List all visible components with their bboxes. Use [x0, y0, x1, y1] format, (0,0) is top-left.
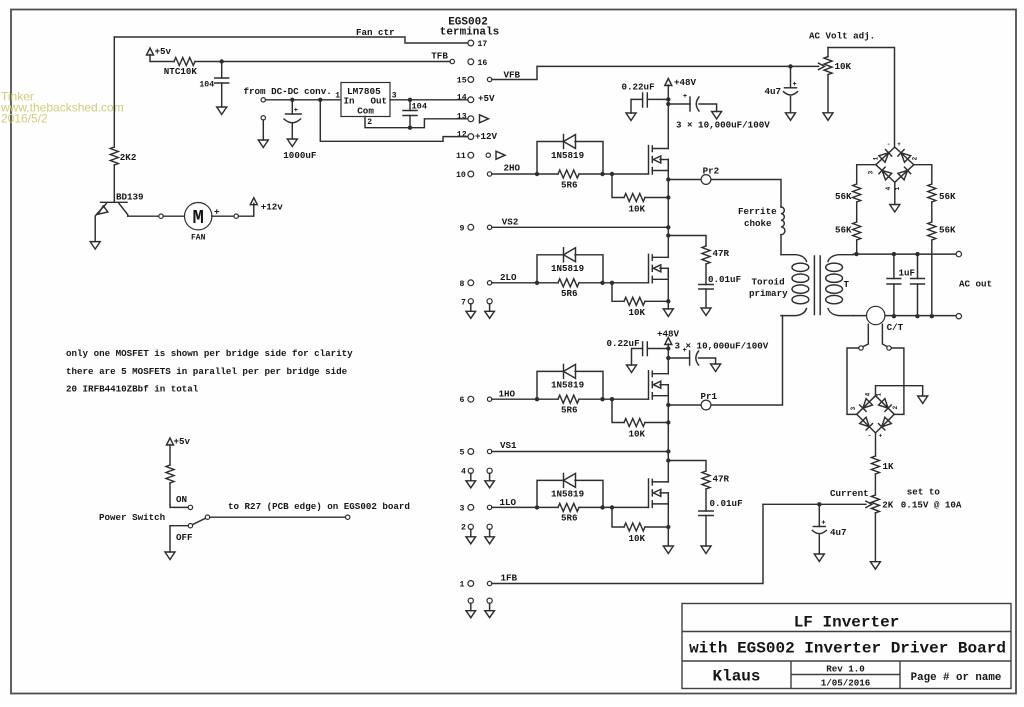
wire 47R to 0.01uF lower — [705, 489, 707, 511]
node circle Pr2 — [701, 175, 711, 185]
svg-text:M: M — [192, 207, 203, 229]
ground NTC cap — [217, 107, 227, 115]
wire rail 2HO source down — [667, 160, 669, 258]
svg-text:2LO: 2LO — [500, 272, 517, 283]
resistor 47R upper — [702, 246, 710, 264]
ground 0.22uF upper — [626, 113, 636, 121]
potentiometer 10K element — [827, 48, 829, 113]
wire pot bottom to ground — [874, 513, 876, 562]
resistor 56K lower-left — [853, 222, 861, 240]
wire bridge bottom to ground — [894, 182, 896, 204]
svg-text:1: 1 — [335, 91, 340, 100]
title block — [682, 604, 1011, 689]
fan wire circle left — [159, 214, 163, 218]
wire rail 2HO drain to +48V — [667, 104, 669, 149]
wire collector to fan — [128, 215, 159, 217]
svg-text:Fan ctr: Fan ctr — [356, 27, 395, 38]
svg-text:47R: 47R — [713, 248, 730, 259]
wire VS2 — [492, 226, 669, 228]
svg-text:+5V: +5V — [478, 93, 495, 104]
svg-text:2016/5/2: 2016/5/2 — [1, 112, 48, 126]
wire 0.01uF to ground lower — [705, 516, 707, 547]
resistor 56K upper-left — [853, 184, 861, 202]
ground power switch — [165, 552, 175, 560]
svg-text:1FB: 1FB — [501, 572, 518, 583]
wire rail 1HO source down — [667, 385, 669, 482]
ground 2LO source — [663, 309, 673, 317]
svg-text:BD139: BD139 — [116, 191, 144, 202]
svg-text:56K: 56K — [835, 191, 852, 202]
svg-text:+5v: +5v — [155, 46, 172, 57]
resistor 5R6 (1LO) — [492, 506, 649, 508]
svg-text:56K: 56K — [835, 224, 852, 235]
wire 2K2 rail — [113, 37, 115, 202]
svg-text:16: 16 — [478, 59, 488, 68]
svg-text:AC out: AC out — [959, 278, 992, 289]
svg-text:+: + — [821, 520, 825, 528]
svg-text:Power Switch: Power Switch — [99, 512, 165, 523]
svg-text:10K: 10K — [835, 61, 852, 72]
wire switch to R27 — [210, 516, 346, 518]
svg-text:10K: 10K — [629, 307, 646, 318]
svg-text:0.01uF: 0.01uF — [710, 498, 743, 509]
svg-text:10K: 10K — [629, 203, 646, 214]
svg-text:1000uF: 1000uF — [283, 150, 316, 161]
svg-text:set to: set to — [907, 486, 941, 497]
capacitor 4u7 upper — [790, 66, 792, 87]
ground 1000uF — [287, 139, 297, 147]
diode bridge upper (AC volt sense) — [876, 147, 914, 182]
capacitor 0.22uF upper — [647, 98, 668, 100]
svg-text:FAN: FAN — [191, 234, 206, 243]
svg-text:2K: 2K — [882, 499, 894, 510]
junction 104 out cap — [408, 98, 412, 102]
MOSFET 2HO — [648, 146, 650, 175]
svg-text:+12V: +12V — [475, 131, 498, 142]
current transformer C/T — [867, 306, 885, 324]
wire Pr1 net to toroid primary bottom — [668, 316, 782, 405]
capacitor 104 (NTC filter) — [221, 62, 223, 79]
wire 56K right to AC bottom line — [931, 240, 933, 316]
svg-text:1: 1 — [876, 393, 883, 397]
wire 56K left to AC line — [856, 240, 858, 254]
resistor 56K lower-right — [928, 222, 936, 240]
wire lower bridge top to ground — [876, 386, 923, 396]
svg-text:47R: 47R — [713, 473, 730, 484]
svg-text:+: + — [294, 107, 298, 115]
svg-text:there are 5 MOSFETS in paralle: there are 5 MOSFETS in parallel per per … — [66, 366, 348, 377]
wire fan to +12v — [212, 215, 234, 217]
junction loop right (1HO) — [600, 397, 604, 401]
svg-text:8: 8 — [460, 280, 465, 289]
junction 4u7 lower — [817, 502, 821, 506]
wire C/T secondary right lead — [882, 324, 887, 347]
wire AC top line — [854, 253, 957, 255]
ground BD139 emitter — [90, 242, 100, 250]
resistor 56K upper-right — [928, 184, 936, 202]
svg-text:15: 15 — [457, 77, 467, 86]
ground 1LO source — [663, 546, 673, 554]
svg-text:56K: 56K — [939, 191, 956, 202]
switch lever — [192, 518, 206, 525]
capacitor 1000uF — [291, 100, 293, 114]
wire LM7805 Com return to terminal 13 — [365, 117, 468, 128]
resistor 5R6 (2LO) — [492, 282, 649, 284]
wire 47R branch lower — [668, 461, 706, 472]
wire bridge bottom to 1K — [875, 433, 877, 456]
svg-text:1/05/2016: 1/05/2016 — [821, 678, 871, 689]
svg-text:+: + — [683, 93, 687, 101]
2LO net circle — [487, 281, 491, 285]
ground stubs below terminal 1 — [468, 598, 473, 603]
svg-text:104: 104 — [199, 81, 214, 90]
IC LM7805 regulator U1 — [341, 83, 390, 117]
junction 10K branch (2HO) — [610, 172, 614, 176]
svg-text:10K: 10K — [629, 428, 646, 439]
capacitor 1uF #2 — [917, 254, 919, 316]
svg-text:Page # or name: Page # or name — [911, 672, 1002, 684]
resistor power switch pullup — [166, 465, 174, 483]
svg-text:T: T — [844, 279, 850, 290]
junction 1uF cap2 bottom — [915, 314, 919, 318]
capacitor 3x10000uF upper — [668, 103, 690, 105]
1HO net circle — [487, 397, 491, 401]
resistor 5R6 (1HO) — [492, 398, 649, 400]
svg-text:AC Volt adj.: AC Volt adj. — [809, 30, 875, 41]
junction loop right (2LO) — [600, 281, 604, 285]
diode bridge lower (current sense) — [857, 396, 895, 433]
svg-text:+48V: +48V — [674, 77, 697, 88]
resistor 10K (1LO) — [612, 507, 624, 527]
+5v arrow power switch — [167, 438, 174, 445]
svg-text:10K: 10K — [629, 533, 646, 544]
net circle 11 — [486, 153, 490, 157]
svg-text:1K: 1K — [883, 461, 895, 472]
capacitor 3x10000uF lower — [668, 357, 689, 359]
svg-text:NTC10K: NTC10K — [164, 66, 198, 77]
svg-text:Rev 1.0: Rev 1.0 — [826, 664, 865, 675]
svg-text:3 × 10,000uF/100V: 3 × 10,000uF/100V — [675, 340, 769, 351]
C/T right connector circle — [887, 346, 891, 350]
svg-text:9: 9 — [460, 224, 465, 233]
svg-text:3: 3 — [460, 504, 465, 513]
ferrite choke coil — [781, 207, 785, 235]
current pot wiper arrow — [763, 503, 866, 505]
wire to ON contact — [170, 505, 188, 507]
resistor NTC10K — [174, 58, 195, 66]
ground lower bridge — [918, 396, 928, 404]
diode 1N5819 (1HO gate loop) — [537, 371, 603, 399]
svg-text:12: 12 — [457, 131, 467, 140]
capacitor 4u7 lower — [818, 504, 820, 526]
resistor 2K2 — [110, 147, 118, 165]
resistor 5R6 (2HO) — [492, 173, 649, 175]
junction 0.22uF lower — [666, 346, 670, 350]
junction loop right (2HO) — [600, 172, 604, 176]
1LO net circle — [487, 505, 491, 509]
wire bridge right arm — [914, 165, 932, 184]
C/T left connector circle — [859, 346, 863, 350]
svg-text:-: - — [868, 433, 872, 440]
wire pot top to measuring bridge — [828, 48, 895, 148]
MOSFET 1HO — [648, 371, 650, 400]
svg-text:0.15V @ 10A: 0.15V @ 10A — [901, 499, 962, 510]
svg-text:3: 3 — [868, 170, 875, 174]
svg-text:from DC-DC conv.: from DC-DC conv. — [244, 86, 332, 97]
svg-text:-: - — [887, 141, 891, 148]
switch pivot circle — [205, 515, 209, 519]
resistor 10K (2LO) — [612, 283, 624, 302]
svg-text:4: 4 — [885, 186, 892, 190]
svg-text:3 × 10,000uF/100V: 3 × 10,000uF/100V — [676, 119, 770, 130]
svg-text:13: 13 — [457, 113, 467, 122]
wire +48V rail lower — [667, 344, 669, 358]
ground 4u7 lower — [814, 554, 824, 562]
svg-text:Ferrite: Ferrite — [738, 206, 777, 217]
svg-text:0.22uF: 0.22uF — [607, 338, 640, 349]
wire C/T right to lower bridge — [891, 348, 904, 414]
TFB wire end circle — [450, 59, 454, 63]
resistor 47R lower — [702, 471, 710, 489]
svg-text:20 IRFB4410ZBbf in total: 20 IRFB4410ZBbf in total — [66, 384, 199, 395]
wire 56K right middle — [931, 202, 933, 222]
svg-text:17: 17 — [478, 40, 488, 49]
svg-text:4: 4 — [461, 467, 466, 476]
junction 1000uF — [290, 98, 294, 102]
capacitor 0.22uF lower — [647, 348, 668, 350]
ground 0.01uF upper — [701, 308, 711, 316]
VS1 net circle — [487, 449, 491, 453]
wire C/T secondary left lead — [863, 324, 869, 347]
svg-text:+: + — [897, 141, 901, 148]
arrow terminal 13 — [480, 115, 489, 123]
junction loop left (2LO) — [535, 281, 539, 285]
resistor 1K — [871, 456, 879, 474]
1FB net circle — [487, 581, 491, 585]
svg-text:with EGS002 Inverter Driver Bo: with EGS002 Inverter Driver Board — [689, 640, 1006, 658]
ground current pot — [870, 562, 880, 570]
svg-text:OFF: OFF — [176, 532, 193, 543]
svg-text:3: 3 — [850, 406, 857, 410]
svg-text:ON: ON — [176, 494, 187, 505]
svg-text:choke: choke — [744, 218, 772, 229]
junction 47R branch upper — [666, 233, 670, 237]
svg-text:Com: Com — [357, 105, 374, 116]
junction Pr2 — [666, 177, 670, 181]
svg-text:1uF: 1uF — [899, 267, 916, 278]
junction 56K right / AC bottom — [930, 314, 934, 318]
svg-text:+12v: +12v — [261, 201, 284, 212]
+5v arrow fan circuit — [147, 48, 154, 55]
junction rail 10K 2HO — [666, 195, 670, 199]
+48V arrow upper — [665, 79, 672, 86]
junction Pr1 — [666, 403, 670, 407]
junction 47R branch lower — [666, 458, 670, 462]
svg-text:1N5819: 1N5819 — [551, 489, 584, 500]
svg-text:LF Inverter: LF Inverter — [794, 614, 900, 632]
svg-text:VFB: VFB — [504, 69, 521, 80]
svg-text:2: 2 — [461, 523, 466, 532]
transformer T toroid primary winding — [781, 255, 807, 262]
wire OFF to ground — [170, 526, 188, 552]
wire choke to toroid primary top — [780, 235, 782, 255]
junction rail 10K 1HO — [666, 420, 670, 424]
transformer T secondary winding — [828, 255, 854, 262]
wire Fan ctr net — [114, 37, 468, 43]
wire +5v to NTC10K and TFB — [150, 55, 450, 62]
svg-text:VS1: VS1 — [500, 440, 517, 451]
junction NTC/cap — [220, 59, 224, 63]
svg-text:In: In — [344, 96, 355, 107]
wire +12V branch to terminal 12 — [320, 100, 467, 142]
capacitor 0.01uF lower — [699, 511, 713, 516]
AC out terminal top — [956, 251, 961, 256]
ground upper bridge — [890, 205, 900, 213]
svg-text:Pr1: Pr1 — [701, 391, 718, 402]
node circle Pr1 — [701, 400, 711, 410]
svg-text:+: + — [792, 81, 796, 89]
svg-text:2K2: 2K2 — [120, 152, 137, 163]
svg-text:+48V: +48V — [657, 328, 680, 339]
capacitor 0.01uF upper — [699, 285, 713, 290]
svg-text:56K: 56K — [939, 224, 956, 235]
+48V arrow lower — [665, 338, 672, 345]
svg-text:1N5819: 1N5819 — [551, 263, 584, 274]
wire C/T left to lower bridge — [847, 348, 859, 414]
svg-text:1N5819: 1N5819 — [551, 380, 584, 391]
junction loop right (1LO) — [600, 505, 604, 509]
ground 4u7 upper — [786, 113, 796, 121]
wire +5v to switch resistor — [169, 445, 171, 506]
svg-text:7: 7 — [461, 298, 466, 307]
junction 10K branch (1LO) — [610, 505, 614, 509]
ground 0.22uF lower — [627, 365, 637, 373]
wire 1FB to current pot wiper — [492, 504, 763, 583]
resistor 10K (2HO) — [612, 174, 624, 198]
wire DC-DC return to ground — [262, 120, 264, 140]
junction 10000uF upper — [666, 102, 670, 106]
capacitor 104 (output) — [409, 100, 411, 111]
wire 0.01uF to ground upper — [705, 289, 707, 308]
svg-text:4u7: 4u7 — [830, 527, 847, 538]
svg-text:0.01uF: 0.01uF — [708, 274, 741, 285]
svg-text:C/T: C/T — [887, 322, 904, 333]
svg-text:+: + — [879, 433, 883, 440]
svg-text:+5v: +5v — [174, 436, 191, 447]
wire rail 1HO drain from +48V — [667, 358, 669, 374]
svg-text:10: 10 — [456, 171, 466, 180]
svg-text:1: 1 — [873, 156, 880, 160]
MOSFET 2LO — [648, 254, 650, 282]
svg-text:Current: Current — [830, 488, 869, 499]
svg-text:4u7: 4u7 — [765, 86, 782, 97]
wire VFB to AC volt adj — [492, 66, 788, 79]
junction +12V branch — [318, 98, 322, 102]
diode 1N5819 (2LO gate loop) — [537, 255, 603, 283]
svg-text:5R6: 5R6 — [561, 179, 578, 190]
ground DC-DC return — [258, 140, 268, 148]
wire 1K to current pot — [874, 474, 876, 495]
junction 56K left / AC top — [854, 252, 858, 256]
junction Com/104 — [408, 126, 412, 130]
svg-text:terminals: terminals — [440, 27, 499, 39]
ground 10000uF upper — [712, 112, 722, 120]
junction loop left (2HO) — [535, 172, 539, 176]
svg-text:2HO: 2HO — [504, 162, 521, 173]
potentiometer 10K wiper arrow — [788, 65, 819, 67]
wire 47R branch upper — [668, 236, 706, 247]
wire rail 1LO source to ground — [667, 493, 669, 546]
VS2 net circle — [487, 225, 491, 229]
AC out terminal bottom — [956, 314, 961, 319]
2HO net circle — [487, 172, 491, 176]
VFB net circle — [487, 77, 491, 81]
junction 0.22uF upper — [666, 97, 670, 101]
MOSFET 1LO — [648, 479, 650, 508]
potentiometer Current 2K element — [871, 495, 879, 513]
capacitor 1uF #1 — [893, 254, 895, 316]
svg-text:5R6: 5R6 — [561, 405, 578, 416]
svg-text:1N5819: 1N5819 — [551, 150, 584, 161]
wire AC bottom line — [854, 315, 957, 317]
junction 10K branch (1HO) — [610, 397, 614, 401]
wire rail 2LO source to ground — [667, 268, 669, 309]
junction VS1 rail — [666, 449, 670, 453]
wire emitter to ground — [95, 214, 97, 242]
svg-text:5R6: 5R6 — [561, 288, 578, 299]
wire LM7805 Out to +5V terminal 14 — [390, 99, 468, 101]
junction VS2 rail — [666, 225, 670, 229]
DC-DC input circle — [261, 98, 265, 102]
R27 wire end circle — [346, 515, 350, 519]
diode 1N5819 (1LO gate loop) — [537, 480, 603, 507]
junction 1uF cap2 top — [915, 252, 919, 256]
svg-text:only one MOSFET is shown per b: only one MOSFET is shown per bridge side… — [66, 348, 353, 359]
junction 10K branch (2LO) — [610, 281, 614, 285]
ground 0.01uF lower — [701, 546, 711, 554]
svg-text:2: 2 — [912, 156, 919, 160]
svg-text:Toroid: Toroid — [752, 276, 785, 287]
wire VS1 — [492, 451, 669, 453]
junction VFB 4u7 — [788, 64, 792, 68]
wire 56K left middle — [856, 202, 858, 222]
svg-text:4: 4 — [865, 392, 872, 396]
resistor 10K (1HO) — [612, 399, 624, 422]
OFF contact circle — [188, 524, 192, 528]
svg-text:1LO: 1LO — [500, 497, 517, 508]
ground pot 10K — [823, 113, 833, 121]
ground 10000uF lower — [711, 364, 721, 372]
wire bridge left arm — [857, 165, 876, 184]
svg-text:TFB: TFB — [431, 51, 448, 62]
svg-text:5: 5 — [460, 449, 465, 458]
junction 10000uF lower — [666, 356, 670, 360]
svg-text:11: 11 — [456, 152, 466, 161]
diode 1N5819 (2HO gate loop) — [537, 142, 603, 175]
wire circle to fan motor — [163, 215, 184, 217]
transformer core — [814, 256, 820, 315]
svg-text:Pr2: Pr2 — [703, 165, 720, 176]
svg-text:1: 1 — [460, 581, 465, 590]
svg-text:6: 6 — [460, 396, 465, 405]
svg-text:VS2: VS2 — [502, 216, 519, 227]
transistor BD139 — [101, 201, 128, 203]
svg-text:2: 2 — [367, 118, 372, 127]
wire 47R to 0.01uF upper — [705, 264, 707, 285]
svg-text:to R27 (PCB edge) on EGS002 b: to R27 (PCB edge) on EGS002 board — [228, 501, 410, 512]
wire DC-DC to LM7805 In — [266, 99, 342, 101]
svg-text:14: 14 — [457, 94, 467, 103]
